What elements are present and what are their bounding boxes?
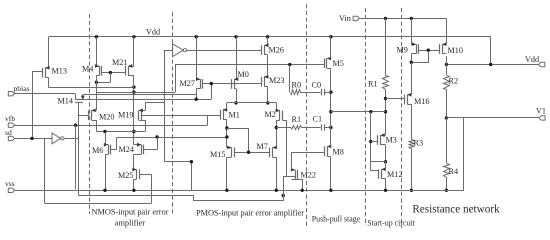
svg-text:M26: M26	[269, 46, 284, 55]
node sd label	[5, 128, 12, 137]
wire M5 gate wire	[175, 64, 324, 66]
svg-text:C0: C0	[312, 81, 322, 90]
junction gate bridge	[427, 49, 430, 52]
wire M21 drain line	[133, 76, 135, 145]
wire gate riser	[110, 73, 112, 83]
wire R1 top	[385, 18, 387, 75]
inverter (top buffer)	[173, 44, 187, 57]
junction M10 drain	[445, 63, 448, 66]
wire R2 bottom	[446, 90, 448, 118]
svg-text:M6: M6	[92, 146, 103, 155]
wire Vdd output line	[446, 64, 538, 66]
wire comp1 right	[324, 92, 331, 94]
wire M25 source	[133, 179, 135, 190]
wire M19 gate wire	[141, 115, 207, 117]
svg-text:C1: C1	[313, 115, 323, 124]
transistor M10	[440, 42, 447, 54]
resistor R1 (vertical)	[383, 76, 389, 90]
wire M22 gate drop lower	[283, 196, 285, 201]
node M25 label	[118, 171, 133, 180]
svg-text:M4: M4	[82, 65, 93, 74]
junction M15 rail	[225, 189, 228, 192]
transistor M9	[411, 42, 418, 54]
wire M27 source	[196, 37, 198, 79]
wire M25 gate riser	[151, 175, 153, 204]
svg-text:M21: M21	[112, 58, 127, 67]
junction M6 rail	[103, 189, 106, 192]
wire M1 drain line	[226, 120, 228, 148]
wire comp1 mid	[300, 92, 321, 94]
wire Vin	[359, 18, 446, 20]
wire M1 gate	[208, 115, 221, 117]
wire M19 drain riser	[145, 102, 147, 110]
node M23 label	[269, 76, 284, 85]
transistor M16	[405, 93, 412, 105]
junction Vin-R1	[384, 17, 387, 20]
wire M20 source	[96, 120, 98, 132]
wire M12 drain	[385, 162, 387, 170]
node pbias label	[14, 84, 30, 93]
junction M5gate-comp	[288, 63, 291, 66]
transistor M26	[262, 43, 269, 55]
junction M5drain-comp	[329, 110, 332, 113]
dashed section separator 1	[89, 14, 91, 214]
node vfb terminal	[8, 123, 14, 127]
node R1 comp label	[292, 115, 302, 124]
node Vdd output label	[525, 55, 539, 64]
wire riser to M5 gate wire	[175, 65, 177, 93]
transistor M24	[134, 143, 144, 155]
wire M25 gate	[140, 174, 152, 176]
svg-text:M1: M1	[229, 111, 240, 120]
node pbias terminal	[8, 92, 14, 96]
junction vfb branch	[74, 124, 77, 127]
node M15 label	[210, 150, 225, 159]
junction gate row M24	[155, 135, 158, 138]
svg-text:M3: M3	[386, 136, 397, 145]
wire inverter-out drop	[78, 138, 80, 195]
resistor R4	[444, 164, 450, 178]
wire pair tail	[227, 102, 276, 104]
wire M23 drain	[267, 87, 269, 103]
wire M16 gate wire	[386, 98, 405, 100]
wire comp row	[331, 111, 386, 113]
wire bottom run 2	[79, 196, 284, 201]
wire V1 to rail right edge	[463, 118, 465, 191]
transistor M14 (horizontal)	[75, 94, 84, 103]
wire comp2 right	[324, 127, 331, 129]
wire M4 drain jog	[96, 82, 110, 84]
wire M2 drain line	[276, 120, 278, 147]
wire tail	[96, 131, 145, 133]
wire top inverter input stub	[164, 50, 173, 52]
svg-text:R3: R3	[414, 139, 424, 148]
wire M27 drain	[196, 89, 198, 100]
node M2 label	[265, 110, 276, 119]
svg-text:Start-up circuit: Start-up circuit	[367, 219, 415, 228]
junction M5drain-C0	[329, 91, 332, 94]
node Vin terminal	[353, 16, 359, 20]
node M24 label	[119, 145, 134, 154]
wire M0 drain	[236, 89, 238, 103]
svg-text:M8: M8	[333, 148, 344, 157]
junction M1 drain b	[225, 135, 228, 138]
wire M1-M7gate jog	[227, 129, 249, 153]
wire vfb	[15, 125, 208, 127]
node V1 terminal	[539, 116, 545, 120]
wire gate drop	[412, 51, 429, 63]
svg-text:M9: M9	[397, 46, 408, 55]
wire R1 bottom	[385, 89, 387, 135]
dashed section separator 3	[306, 4, 308, 226]
junction sd-M13gate	[30, 137, 33, 140]
wire M27 loop row	[83, 99, 211, 101]
node M0 label	[238, 70, 249, 79]
junction M27 rail	[195, 35, 198, 38]
wire bottom run 1	[45, 203, 152, 205]
svg-text:M0: M0	[238, 70, 249, 79]
wire M14 right lead row	[83, 94, 196, 96]
svg-text:M27: M27	[180, 79, 195, 88]
wire M22 drain riser	[291, 152, 293, 170]
junction M8 rail	[329, 189, 332, 192]
transistor M25	[132, 168, 139, 180]
wire M5 drain line	[330, 68, 332, 146]
junction M4 rail	[95, 35, 98, 38]
transistor M23	[262, 75, 269, 87]
junction riser elbow	[190, 160, 193, 163]
wire M6 gate riser	[111, 138, 117, 150]
junction M3-M12	[384, 160, 387, 163]
junction Vin-M9	[410, 17, 413, 20]
junction rail drop	[489, 63, 492, 66]
junction M23 tail	[266, 101, 269, 104]
wire M3 source	[385, 145, 387, 162]
label start-up	[367, 219, 415, 228]
wire M10 drain	[446, 56, 448, 64]
wire M6 source	[105, 154, 107, 190]
svg-text:R0: R0	[292, 81, 302, 90]
wire inverter out	[64, 138, 79, 140]
node M4 label	[82, 65, 93, 74]
wire M27 gate lead	[203, 83, 262, 85]
wire vfb drop	[75, 125, 77, 189]
junction M7 rail	[275, 189, 278, 192]
node R0 label	[292, 81, 302, 90]
junction tail-M6	[103, 130, 106, 133]
transistor M2	[276, 109, 283, 121]
wire M10 source	[446, 42, 448, 44]
svg-text:vfb: vfb	[5, 114, 15, 123]
wire M2 gate drop	[283, 121, 287, 177]
transistor M20	[89, 109, 97, 121]
wire comp2 left	[276, 127, 291, 129]
wire M5 source	[330, 37, 332, 59]
svg-text:NMOS-input pair error: NMOS-input pair error	[92, 208, 169, 217]
node sd terminal	[8, 136, 14, 140]
node vss label	[5, 179, 15, 188]
svg-text:M22: M22	[301, 171, 316, 180]
node M26 label	[269, 46, 284, 55]
svg-text:M25: M25	[118, 171, 133, 180]
junction M21-pbias	[132, 91, 135, 94]
wire M4 drain line	[96, 76, 98, 95]
label NMOS amp line2	[115, 219, 146, 228]
svg-text:R4: R4	[449, 167, 459, 176]
node M16 label	[414, 97, 429, 106]
wire M9-M10 gate bridge	[419, 50, 440, 52]
wire M9 source line	[411, 18, 413, 44]
svg-text:Resistance network: Resistance network	[412, 204, 500, 216]
wire vfb riser	[207, 115, 209, 125]
wire startup drop	[370, 112, 372, 171]
wire M0 source	[236, 37, 238, 79]
wire M15-M7 gate	[234, 152, 270, 154]
wire inverter feed riser	[164, 50, 166, 162]
wire M14 gate drop	[78, 102, 80, 138]
node M5 label	[333, 59, 344, 68]
junction M1 drain a	[225, 126, 228, 129]
svg-text:M19: M19	[118, 110, 133, 119]
wire sd drop	[44, 138, 46, 203]
wire M24 gate stub	[144, 149, 157, 151]
resistor R2	[444, 76, 450, 90]
wire M9 drain	[411, 54, 413, 63]
junction R1-M16gate	[384, 97, 387, 100]
junction R2-V1	[445, 116, 448, 119]
resistor R3	[409, 140, 415, 149]
junction M21-tail	[132, 130, 135, 133]
dashed section separator 2	[172, 12, 174, 214]
transistor M15	[227, 146, 235, 158]
node M21 label	[112, 58, 127, 67]
wire vss rail	[15, 190, 464, 192]
svg-text:M15: M15	[210, 150, 225, 159]
junction wireA-M21	[132, 85, 135, 88]
wire gate row M6M24	[117, 137, 227, 139]
node M19 label	[118, 110, 133, 119]
node M20 label	[99, 112, 114, 121]
svg-text:M5: M5	[333, 59, 344, 68]
svg-text:M12: M12	[387, 170, 402, 179]
wire pbias	[15, 93, 76, 95]
junction M27-M0 gate	[210, 82, 213, 85]
node C0 label	[312, 81, 322, 90]
wire comp1 drop	[289, 65, 291, 93]
junction M0 tail	[234, 101, 237, 104]
node Vin label	[339, 14, 351, 23]
transistor M5	[325, 57, 332, 69]
wire M22 gate drop	[283, 176, 285, 196]
junction M9 drain node	[410, 61, 413, 64]
transistor M27	[196, 77, 203, 89]
node R1 label	[368, 80, 378, 89]
node R2 label	[449, 77, 459, 86]
resistor R1 (comp)	[292, 126, 302, 130]
svg-text:M24: M24	[119, 145, 134, 154]
junction bottom run 2 end	[282, 194, 285, 197]
wire M13 source riser	[48, 37, 50, 68]
svg-text:R2: R2	[449, 77, 459, 86]
junction R3-rail	[410, 189, 413, 192]
junction R4-rail	[445, 189, 448, 192]
node M1 label	[229, 111, 240, 120]
wire M26 drain to M23	[267, 55, 269, 77]
junction M3 gate node	[369, 140, 372, 143]
junction M27 drain	[195, 98, 198, 101]
node V1 label	[536, 107, 546, 116]
wire M1 source riser	[226, 103, 228, 110]
svg-text:Vdd: Vdd	[525, 55, 539, 64]
inverter (sd buffer)	[52, 133, 64, 144]
wire M2 source riser	[276, 103, 278, 111]
wire M8 gate wire	[292, 152, 325, 154]
wire mirror row	[96, 92, 175, 94]
capacitor C0	[322, 89, 325, 95]
wire R2 top	[446, 65, 448, 76]
node Vdd output terminal	[539, 62, 545, 66]
wire M3 gate lead	[371, 141, 378, 143]
wire comp2 mid	[302, 127, 321, 129]
wire M4 source riser	[96, 37, 98, 66]
node R4 label	[449, 167, 459, 176]
svg-text:pbias: pbias	[14, 84, 30, 93]
transistor M22	[291, 168, 298, 180]
wire M16 drain line	[411, 62, 413, 94]
wire R3 bottom	[411, 149, 413, 191]
wire inverter feed	[146, 102, 165, 104]
wire V1 line	[446, 117, 538, 119]
wire M6 drain	[105, 132, 107, 145]
wire M7 source	[276, 157, 278, 190]
node M3 label	[386, 136, 397, 145]
svg-text:M23: M23	[269, 76, 284, 85]
wire M22 gate lead	[283, 176, 295, 178]
svg-text:M20: M20	[99, 112, 114, 121]
node M8 label	[333, 148, 344, 157]
dashed section separator 4	[365, 8, 367, 226]
wire M20 gate stub	[79, 115, 89, 117]
wire M26 source	[267, 37, 269, 46]
junction M21 rail	[132, 35, 135, 38]
svg-text:M16: M16	[414, 97, 429, 106]
transistor M12	[379, 167, 386, 178]
node M22 label	[301, 171, 316, 180]
node M10 label	[448, 46, 463, 55]
wire M22 source	[292, 180, 303, 191]
wire M3M12 stub	[371, 161, 386, 163]
node M27 label	[180, 79, 195, 88]
label PMOS amp	[196, 209, 304, 218]
node M7 label	[257, 142, 268, 151]
junction comp-startup	[369, 110, 372, 113]
transistor M21	[126, 64, 134, 76]
dashed section separator 5	[401, 8, 403, 228]
wire M27 loop riser	[211, 84, 213, 100]
svg-text:amplifier: amplifier	[115, 219, 146, 228]
transistor M1	[221, 108, 228, 120]
junction M25 rail	[132, 189, 135, 192]
wire A first-row	[49, 87, 134, 89]
node M14 label	[58, 97, 73, 106]
svg-text:Push-pull stage: Push-pull stage	[312, 215, 361, 224]
svg-text:PMOS-input pair error amplifie: PMOS-input pair error amplifier	[196, 209, 304, 218]
wire M13 drain	[48, 78, 50, 88]
node vss terminal	[8, 188, 14, 192]
svg-text:vss: vss	[5, 179, 15, 188]
junction M26 rail	[266, 35, 269, 38]
node M13 label	[52, 67, 67, 76]
wire M15 source	[226, 157, 228, 190]
transistor M0	[232, 77, 239, 89]
transistor M13	[43, 66, 50, 78]
wire Vin drop to M10	[446, 18, 448, 42]
svg-text:M10: M10	[448, 46, 463, 55]
svg-text:V1: V1	[536, 107, 546, 116]
wire sd	[15, 138, 52, 140]
wire M24-M25 stack	[133, 154, 135, 169]
svg-text:R1: R1	[292, 115, 302, 124]
node M9 label	[397, 46, 408, 55]
wire Vdd rail	[49, 36, 491, 38]
svg-text:M14: M14	[58, 97, 73, 106]
svg-text:M13: M13	[52, 67, 67, 76]
transistor M4	[95, 64, 102, 76]
label resistance network	[412, 204, 500, 216]
resistor R0	[291, 90, 301, 95]
wire M20 drain riser	[96, 95, 98, 111]
wire rail drop to output	[490, 37, 492, 65]
label NMOS amp line1	[92, 208, 169, 217]
junction M4 drain	[95, 81, 98, 84]
wire M8 source	[330, 156, 332, 190]
junction M2 drain	[275, 126, 278, 129]
wire riser elbow	[165, 162, 192, 191]
transistor M19	[139, 109, 146, 121]
svg-text:Vin: Vin	[339, 14, 351, 23]
wire top inverter out	[187, 50, 262, 52]
wire M12 source	[385, 179, 387, 190]
wire M14-M27 drain row	[196, 95, 198, 100]
junction M22 rail	[301, 189, 304, 192]
wire R4 bottom	[446, 177, 448, 190]
label push-pull	[312, 215, 361, 224]
node M12 label	[387, 170, 402, 179]
wire M19 source	[145, 120, 147, 132]
junction M5 rail	[329, 35, 332, 38]
node vfb label	[5, 114, 15, 123]
svg-text:M2: M2	[265, 110, 276, 119]
wire M24 gate riser	[157, 137, 159, 150]
svg-text:sd: sd	[5, 128, 12, 137]
node M6 label	[92, 146, 103, 155]
junction mirror gate	[247, 151, 250, 154]
transistor M8	[325, 145, 332, 157]
svg-text:M7: M7	[257, 142, 268, 151]
node C1 label	[313, 115, 323, 124]
svg-text:R1: R1	[368, 80, 378, 89]
capacitor C1	[322, 124, 325, 130]
junction C1-M5drain	[329, 126, 332, 129]
transistor M7	[270, 146, 277, 158]
wire M21 source riser	[133, 37, 135, 66]
transistor M6	[104, 143, 111, 155]
svg-text:Vdd: Vdd	[146, 28, 160, 37]
resistor R4 top wire	[446, 118, 448, 163]
junction M4M21 gate	[109, 71, 112, 74]
node Vdd rail label	[146, 28, 160, 37]
junction M0 rail	[234, 35, 237, 38]
